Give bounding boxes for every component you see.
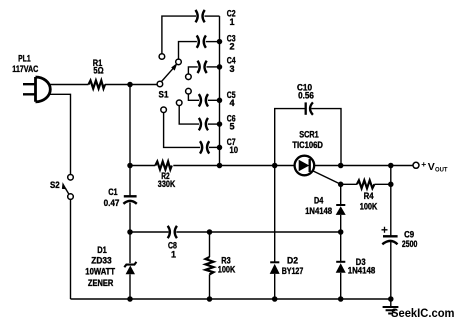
diode D4 <box>305 184 346 232</box>
capacitor C1 <box>104 187 137 208</box>
S1 contact 4 and wire to C5 <box>186 88 192 94</box>
svg-text:OUT: OUT <box>435 166 448 173</box>
capacitor C3 <box>197 35 206 47</box>
resistor R1 <box>89 58 106 88</box>
label C7 value 10 <box>227 137 238 155</box>
wire: bottom rail <box>71 298 391 300</box>
svg-text:SeekIC.com: SeekIC.com <box>391 306 455 320</box>
svg-text:0.47: 0.47 <box>104 198 120 208</box>
resistor R4 <box>341 180 391 211</box>
svg-text:C9: C9 <box>404 229 414 239</box>
svg-text:ZD33: ZD33 <box>91 256 111 266</box>
capacitor C6 <box>199 118 208 130</box>
capacitor C8 <box>168 226 177 260</box>
capacitor C4 <box>198 61 207 73</box>
junction: bus at C4 <box>217 64 223 70</box>
S1 contact 3 and wire to C4 <box>186 74 192 80</box>
svg-text:TIC106D: TIC106D <box>292 140 323 150</box>
svg-text:ZENER: ZENER <box>88 278 114 288</box>
wire: C9 branch vertical <box>390 166 392 300</box>
wire: main line y=165.5 (R2 to SCR anode) <box>173 165 294 167</box>
junction: bus at C7 <box>217 145 223 151</box>
svg-text:R4: R4 <box>364 191 374 201</box>
diode D3 <box>336 232 376 299</box>
zener diode D1 <box>85 245 136 299</box>
svg-text:100K: 100K <box>360 202 378 212</box>
svg-text:3: 3 <box>230 64 235 74</box>
junction: R3 take-off <box>207 229 213 235</box>
S1 contact 1 and wire to C2 <box>159 54 165 60</box>
capacitor C7 <box>200 141 209 153</box>
ground <box>383 299 399 314</box>
svg-text:+: + <box>421 159 426 169</box>
label C6 value 5 <box>227 114 236 132</box>
junction: bus at C6 <box>217 121 223 127</box>
svg-text:330K: 330K <box>158 179 176 189</box>
junction: rail at D3 <box>338 296 344 302</box>
junction: SCR gate node <box>338 182 344 188</box>
wire: SCR cathode to +Vout terminal <box>314 165 413 167</box>
svg-text:S1: S1 <box>159 90 169 100</box>
wire: C4 to bus <box>207 66 220 68</box>
wire: C6 to bus <box>208 123 220 125</box>
junction: bus at C5 <box>217 98 223 104</box>
node +VOUT <box>413 159 448 174</box>
junction: rail end at ground <box>388 296 394 302</box>
svg-text:100K: 100K <box>218 265 236 275</box>
svg-text:1N4148: 1N4148 <box>348 266 376 276</box>
svg-text:SCR1: SCR1 <box>299 130 319 140</box>
svg-text:117VAC: 117VAC <box>12 64 38 74</box>
label C5 value 4 <box>227 90 236 108</box>
junction: bus meets main line <box>217 163 223 169</box>
junction: bus at C3 <box>217 39 223 45</box>
svg-text:0.56: 0.56 <box>298 91 314 101</box>
svg-text:4: 4 <box>230 98 235 108</box>
wire: C1 to D1 <box>129 203 131 264</box>
wire: y=232 line (C8 row) <box>130 231 341 233</box>
wire: x=130 vertical (main to C1) <box>129 85 131 197</box>
junction: C10 right / cathode line <box>338 163 344 169</box>
svg-text:1: 1 <box>230 17 235 27</box>
SCR1 TIC106D <box>292 130 340 185</box>
S1 contact 2 and wire to C3 <box>176 59 182 65</box>
wire: C3 to bus <box>206 41 220 43</box>
switch S2 <box>50 175 73 200</box>
wire: S2 to bottom rail <box>70 200 72 300</box>
svg-text:PL1: PL1 <box>18 53 31 63</box>
svg-text:5: 5 <box>230 122 235 132</box>
capacitor C10 (snubber branch) <box>275 83 341 166</box>
resistor R3 <box>206 232 236 299</box>
svg-text:10: 10 <box>230 145 239 155</box>
junction: +Vout line at C9 branch <box>388 163 394 169</box>
svg-text:2500: 2500 <box>402 239 418 249</box>
capacitor C5 <box>199 94 208 106</box>
svg-text:1: 1 <box>171 250 176 260</box>
switch S1 (common pole and wiper arrow) <box>157 63 178 100</box>
label C4 value 3 <box>227 56 236 74</box>
wire: R1 to S1 common <box>105 84 157 86</box>
wire: plug bottom to S2 <box>49 94 71 174</box>
capacitor C9 <box>382 227 418 249</box>
svg-text:S2: S2 <box>50 180 60 190</box>
label C3 value 2 <box>227 34 236 52</box>
svg-text:V: V <box>428 161 435 173</box>
junction: rail at D1 <box>127 296 133 302</box>
junction: R2 take-off <box>127 163 133 169</box>
junction: main line / x=130 branch <box>127 82 133 88</box>
resistor R2 <box>130 162 176 190</box>
wire: plug top to R1 <box>49 84 89 86</box>
diode D2 <box>270 166 304 300</box>
wire: C2 to bus <box>205 15 220 17</box>
junction: rail at R3 <box>207 296 213 302</box>
plug PL1 <box>12 53 50 101</box>
svg-text:2: 2 <box>230 42 235 52</box>
S1 contact 5 and wire to C6 <box>176 100 182 106</box>
svg-text:5Ω: 5Ω <box>93 65 103 75</box>
S1 contact 6 and wire to C7 <box>161 107 167 113</box>
svg-text:1N4148: 1N4148 <box>305 206 332 216</box>
svg-text:D1: D1 <box>97 245 107 255</box>
junction: R4 right at C9 line <box>388 182 394 188</box>
label C2 value 1 <box>227 8 236 27</box>
junction: D4/D3 node <box>338 229 344 235</box>
svg-text:C1: C1 <box>108 187 117 197</box>
svg-text:D2: D2 <box>287 255 298 265</box>
junction: C10/D2 branch at main line <box>272 163 278 169</box>
svg-text:BY127: BY127 <box>282 266 304 276</box>
junction: C8 take-off <box>127 229 133 235</box>
wire: capacitor common bus <box>219 16 221 165</box>
svg-text:D4: D4 <box>314 196 323 206</box>
wire: C7 to bus <box>209 146 220 148</box>
capacitor C2 <box>196 10 205 22</box>
svg-text:10WATT: 10WATT <box>85 267 115 277</box>
wire: C5 to bus <box>208 99 220 101</box>
junction: rail at D2 <box>272 296 278 302</box>
